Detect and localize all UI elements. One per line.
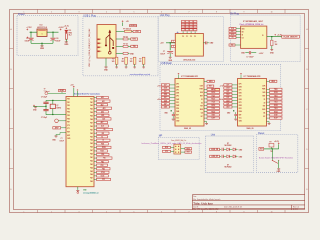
svg-text:+7.5v: +7.5v (220, 85, 224, 87)
svg-text:SCK: SCK (242, 28, 245, 30)
svg-text:10: 10 (271, 11, 273, 13)
svg-text:1: 1 (42, 33, 43, 35)
svg-text:GND: GND (40, 48, 45, 50)
svg-text:RXD0: RXD0 (102, 147, 106, 149)
svg-text:1K5: 1K5 (130, 61, 133, 63)
svg-text:EXT: EXT (176, 114, 179, 116)
svg-text:BUS: BUS (262, 109, 265, 111)
svg-text:+5.0v: +5.0v (157, 99, 161, 101)
svg-text:GND: GND (67, 138, 70, 140)
svg-text:Usb: Usb (211, 133, 216, 136)
svg-text:1K5: 1K5 (112, 61, 115, 63)
svg-text:VCC: VCC (239, 117, 242, 119)
svg-text:TXD1: TXD1 (211, 95, 215, 97)
svg-text:Usb Plug: Usb Plug (160, 14, 170, 17)
svg-text:RST: RST (263, 96, 266, 98)
svg-text:DP0: DP0 (239, 83, 242, 85)
svg-text:D2P: D2P (227, 91, 230, 93)
svg-text:B: B (306, 69, 307, 71)
svg-text:BUS: BUS (200, 109, 203, 111)
svg-text:ATS-2146-C32: ATS-2146-C32 (183, 59, 195, 62)
svg-text:FLASH_MEMORY: FLASH_MEMORY (284, 36, 299, 39)
svg-text:RD: RD (103, 129, 105, 131)
svg-text:TXD1: TXD1 (274, 95, 278, 97)
svg-text:P0: P0 (182, 36, 184, 38)
svg-text:X1: X1 (201, 99, 203, 101)
svg-text:knihovna_Prodflash_03/10c_(b/3: knihovna_Prodflash_03/10c_(b/3_code_UAR_… (142, 142, 202, 145)
svg-text:DP3: DP3 (239, 102, 242, 104)
svg-text:Date: 2011-12-13 21:54: Date: 2011-12-13 21:54 (224, 206, 242, 209)
svg-text:7: 7 (189, 11, 190, 13)
svg-text:TXD2: TXD2 (211, 102, 215, 104)
svg-text:NC: NC (263, 116, 265, 118)
svg-text:+3.3V: +3.3V (259, 53, 265, 55)
svg-text:1K5: 1K5 (139, 61, 142, 63)
svg-text:R?: R? (112, 59, 114, 61)
svg-text:3: 3 (79, 212, 80, 214)
svg-text:16MHz: 16MHz (56, 107, 61, 109)
svg-text:PE7: PE7 (67, 122, 70, 124)
svg-text:PE0: PE0 (67, 99, 70, 101)
svg-text:RST: RST (200, 96, 203, 98)
svg-text:USB Flash: USB Flash (161, 62, 173, 65)
svg-text:OVR: OVR (262, 85, 265, 87)
svg-text:C?: C? (61, 138, 63, 140)
svg-text:NC: NC (201, 116, 203, 118)
svg-text:PB0: PB0 (101, 154, 104, 156)
svg-text:GND: GND (239, 121, 242, 123)
svg-text:Title: Usb key: Title: Usb key (193, 201, 213, 205)
svg-text:RXD3: RXD3 (274, 111, 278, 113)
svg-text:9: 9 (244, 212, 245, 214)
svg-text:XT2: XT2 (67, 125, 70, 127)
svg-text:DM2: DM2 (176, 99, 179, 101)
svg-text:DM3: DM3 (176, 105, 179, 107)
svg-text:RXD0: RXD0 (274, 92, 278, 94)
svg-text:R?: R? (130, 59, 132, 61)
svg-text:GND: GND (64, 44, 69, 46)
svg-text:X2: X2 (264, 102, 266, 104)
svg-text:PE2: PE2 (67, 105, 70, 107)
svg-text:8: 8 (216, 11, 217, 13)
svg-text:DM0: DM0 (239, 86, 242, 88)
svg-text:OVR: OVR (200, 85, 203, 87)
svg-text:PB1: PB1 (103, 158, 106, 160)
svg-text:DP1: DP1 (239, 90, 242, 92)
svg-text:RST: RST (209, 86, 212, 88)
svg-text:9: 9 (244, 11, 245, 13)
svg-text:UUSB_DM: UUSB_DM (211, 149, 219, 151)
svg-text:8: 8 (216, 212, 217, 214)
svg-text:RXD2: RXD2 (274, 105, 278, 107)
svg-text:D1P: D1P (227, 85, 230, 87)
svg-text:D3P: D3P (227, 97, 230, 99)
svg-text:MOSI: MOSI (231, 34, 235, 36)
svg-text:TS?: TS? (270, 151, 273, 153)
svg-text:DP2: DP2 (176, 96, 179, 98)
svg-text:5969_05: 5969_05 (247, 128, 254, 130)
svg-text:PWR: PWR (200, 89, 203, 91)
svg-text:RXD1: RXD1 (274, 99, 278, 101)
svg-text:RXD2: RXD2 (211, 105, 215, 107)
svg-text:P2: P2 (190, 36, 192, 38)
svg-text:100uF: 100uF (25, 41, 30, 43)
svg-text:PB3: PB3 (101, 165, 104, 167)
svg-text:+5.0v: +5.0v (220, 99, 224, 101)
svg-text:4: 4 (106, 212, 107, 214)
svg-text:PE5: PE5 (67, 115, 70, 117)
svg-text:RXD0: RXD0 (211, 92, 215, 94)
svg-text:OC2: OC2 (102, 179, 105, 181)
svg-text:DM3: DM3 (239, 105, 242, 107)
svg-text:DM2: DM2 (239, 99, 242, 101)
svg-text:7: 7 (189, 212, 190, 214)
svg-text:P1: P1 (186, 36, 188, 38)
svg-text:R? 22: R? 22 (123, 36, 127, 38)
svg-text:C? 22pF: C? 22pF (41, 117, 47, 119)
svg-text:DP1: DP1 (176, 90, 179, 92)
svg-text:PEN: PEN (101, 143, 104, 145)
svg-text:USB-1_Plug_USB-A_USB(U)VCC_PAD: USB-1_Plug_USB-A_USB(U)VCC_PAD_UAV (88, 28, 91, 67)
svg-text:PB2: PB2 (101, 161, 104, 163)
svg-text:RST: RST (187, 152, 190, 154)
svg-text:UUSB_DP: UUSB_DP (211, 156, 218, 158)
svg-text:T0: T0 (101, 136, 103, 138)
svg-text:GND: GND (176, 121, 179, 123)
svg-text:2: 2 (51, 11, 52, 13)
svg-text:MP: MP (159, 135, 163, 138)
svg-text:LM1117-5.0: LM1117-5.0 (37, 27, 47, 29)
svg-text:WR: WR (102, 133, 104, 135)
svg-text:RST: RST (67, 132, 70, 134)
svg-text:PE3: PE3 (67, 108, 70, 110)
svg-text:PWR: PWR (262, 89, 265, 91)
svg-text:2: 2 (51, 212, 52, 214)
svg-text:atmega2560dti-ai: atmega2560dti-ai (83, 191, 99, 194)
svg-text:X1: X1 (264, 99, 266, 101)
svg-text:Power: Power (18, 13, 25, 16)
svg-text:Button Switch SMD/SW SPST R220: Button Switch SMD/SW SPST R220ohm (259, 156, 293, 159)
svg-text:+3.3v: +3.3v (64, 25, 70, 27)
svg-text:E: E (10, 189, 11, 191)
svg-text:TXD0: TXD0 (100, 151, 104, 153)
svg-text:TXD0: TXD0 (274, 89, 278, 91)
svg-text:DM1: DM1 (176, 93, 179, 95)
svg-text:IC9: IC9 (69, 30, 72, 32)
svg-text:DP0: DP0 (176, 83, 179, 85)
svg-text:RXD3: RXD3 (211, 111, 215, 113)
svg-text:VCC: VCC (176, 117, 179, 119)
svg-text:X2: X2 (201, 102, 203, 104)
svg-text:www.beyondlogic.org/usb: www.beyondlogic.org/usb (130, 74, 150, 76)
svg-text:OC1B: OC1B (100, 176, 104, 178)
svg-text:TXD3: TXD3 (211, 108, 215, 110)
svg-text:C?: C? (163, 51, 165, 53)
svg-text:TST: TST (263, 106, 266, 108)
svg-text:Flash_ATXMEGA_32WH_bit: Flash_ATXMEGA_32WH_bit (240, 23, 264, 26)
svg-text:TXD2: TXD2 (274, 102, 278, 104)
svg-text:D2P: D2P (164, 91, 167, 93)
svg-text:XT1: XT1 (67, 128, 70, 130)
svg-text:Q?: Q? (56, 105, 58, 107)
svg-text:C? 22pF: C? 22pF (41, 96, 47, 98)
svg-text:USB 1 Plug: USB 1 Plug (83, 14, 96, 17)
svg-text:SM Plug: SM Plug (230, 13, 240, 16)
svg-text:VBUS: VBUS (271, 81, 275, 83)
svg-text:N. 1/1: N. 1/1 (293, 209, 298, 211)
svg-text:SCK: SCK (231, 28, 234, 30)
svg-text:IC? ATXMEGA32_-WH-7: IC? ATXMEGA32_-WH-7 (243, 20, 263, 23)
svg-text:IC? TUSB2046B-VFR: IC? TUSB2046B-VFR (244, 75, 261, 78)
svg-text:5: 5 (134, 212, 135, 214)
svg-text:R?: R? (275, 41, 277, 43)
svg-text:EXT: EXT (239, 114, 242, 116)
svg-text:IC? TUSB2046B-VFR: IC? TUSB2046B-VFR (181, 75, 198, 78)
svg-text:6: 6 (161, 212, 162, 214)
svg-text:TST: TST (200, 106, 203, 108)
svg-text:GND: GND (230, 45, 233, 47)
svg-text:100nF: 100nF (60, 141, 64, 143)
svg-text:RXD1: RXD1 (211, 99, 215, 101)
svg-text:R?: R? (139, 59, 141, 61)
svg-text:B: B (10, 69, 11, 71)
svg-text:SUSP: SUSP (274, 118, 278, 120)
svg-text:D1P: D1P (164, 85, 167, 87)
svg-text:DM1: DM1 (239, 93, 242, 95)
svg-text:3: 3 (79, 11, 80, 13)
svg-text:NUP2202: NUP2202 (225, 145, 232, 147)
svg-text:+7.5v: +7.5v (157, 85, 161, 87)
svg-text:File: LTX: sheet/Plot MM-DD-WW: File: LTX: sheet/Plot MM-DD-WW (193, 208, 219, 211)
svg-text:DM0: DM0 (176, 86, 179, 88)
svg-text:Reset: Reset (258, 132, 265, 135)
svg-text:C? 100nF: C? 100nF (246, 56, 253, 58)
svg-text:SL2: SL2 (69, 35, 72, 37)
svg-text:SCK: SCK (165, 151, 168, 153)
svg-text:5: 5 (134, 11, 135, 13)
svg-text:VBUS: VBUS (209, 81, 213, 83)
svg-text:1: 1 (24, 212, 25, 214)
svg-text:SUSP: SUSP (211, 118, 215, 120)
svg-text:D?: D? (227, 143, 229, 145)
svg-text:1K5: 1K5 (121, 61, 124, 63)
svg-text:PE6: PE6 (67, 118, 70, 120)
svg-text:SUS: SUS (200, 92, 203, 94)
svg-text:DP2: DP2 (239, 96, 242, 98)
svg-text:10: 10 (271, 212, 273, 214)
svg-text:DP3: DP3 (176, 102, 179, 104)
svg-text:R?: R? (122, 59, 124, 61)
svg-text:TXD3: TXD3 (274, 108, 278, 110)
svg-text:4: 4 (106, 11, 107, 13)
svg-text:5969_05: 5969_05 (184, 128, 191, 130)
svg-text:T1: T1 (102, 140, 104, 142)
svg-text:CS: CS (232, 37, 234, 39)
svg-text:100uF: 100uF (56, 41, 61, 43)
svg-text:T?: T? (44, 89, 46, 91)
svg-text:PE1: PE1 (67, 102, 70, 104)
svg-text:P3: P3 (194, 36, 196, 38)
svg-text:100nF: 100nF (160, 53, 165, 55)
svg-text:D3P: D3P (164, 97, 167, 99)
svg-text:USHIELD: USHIELD (130, 25, 138, 27)
svg-text:SUS: SUS (262, 92, 265, 94)
svg-text:CS: CS (242, 37, 244, 39)
svg-text:E: E (306, 189, 307, 191)
svg-text:RST: RST (260, 149, 263, 151)
svg-text:NUP2202: NUP2202 (225, 167, 232, 169)
svg-text:D?: D? (227, 165, 229, 167)
svg-text:See Next Sheet For Connections: See Next Sheet For Connections (74, 92, 100, 95)
svg-text:R? 22: R? 22 (123, 44, 127, 46)
